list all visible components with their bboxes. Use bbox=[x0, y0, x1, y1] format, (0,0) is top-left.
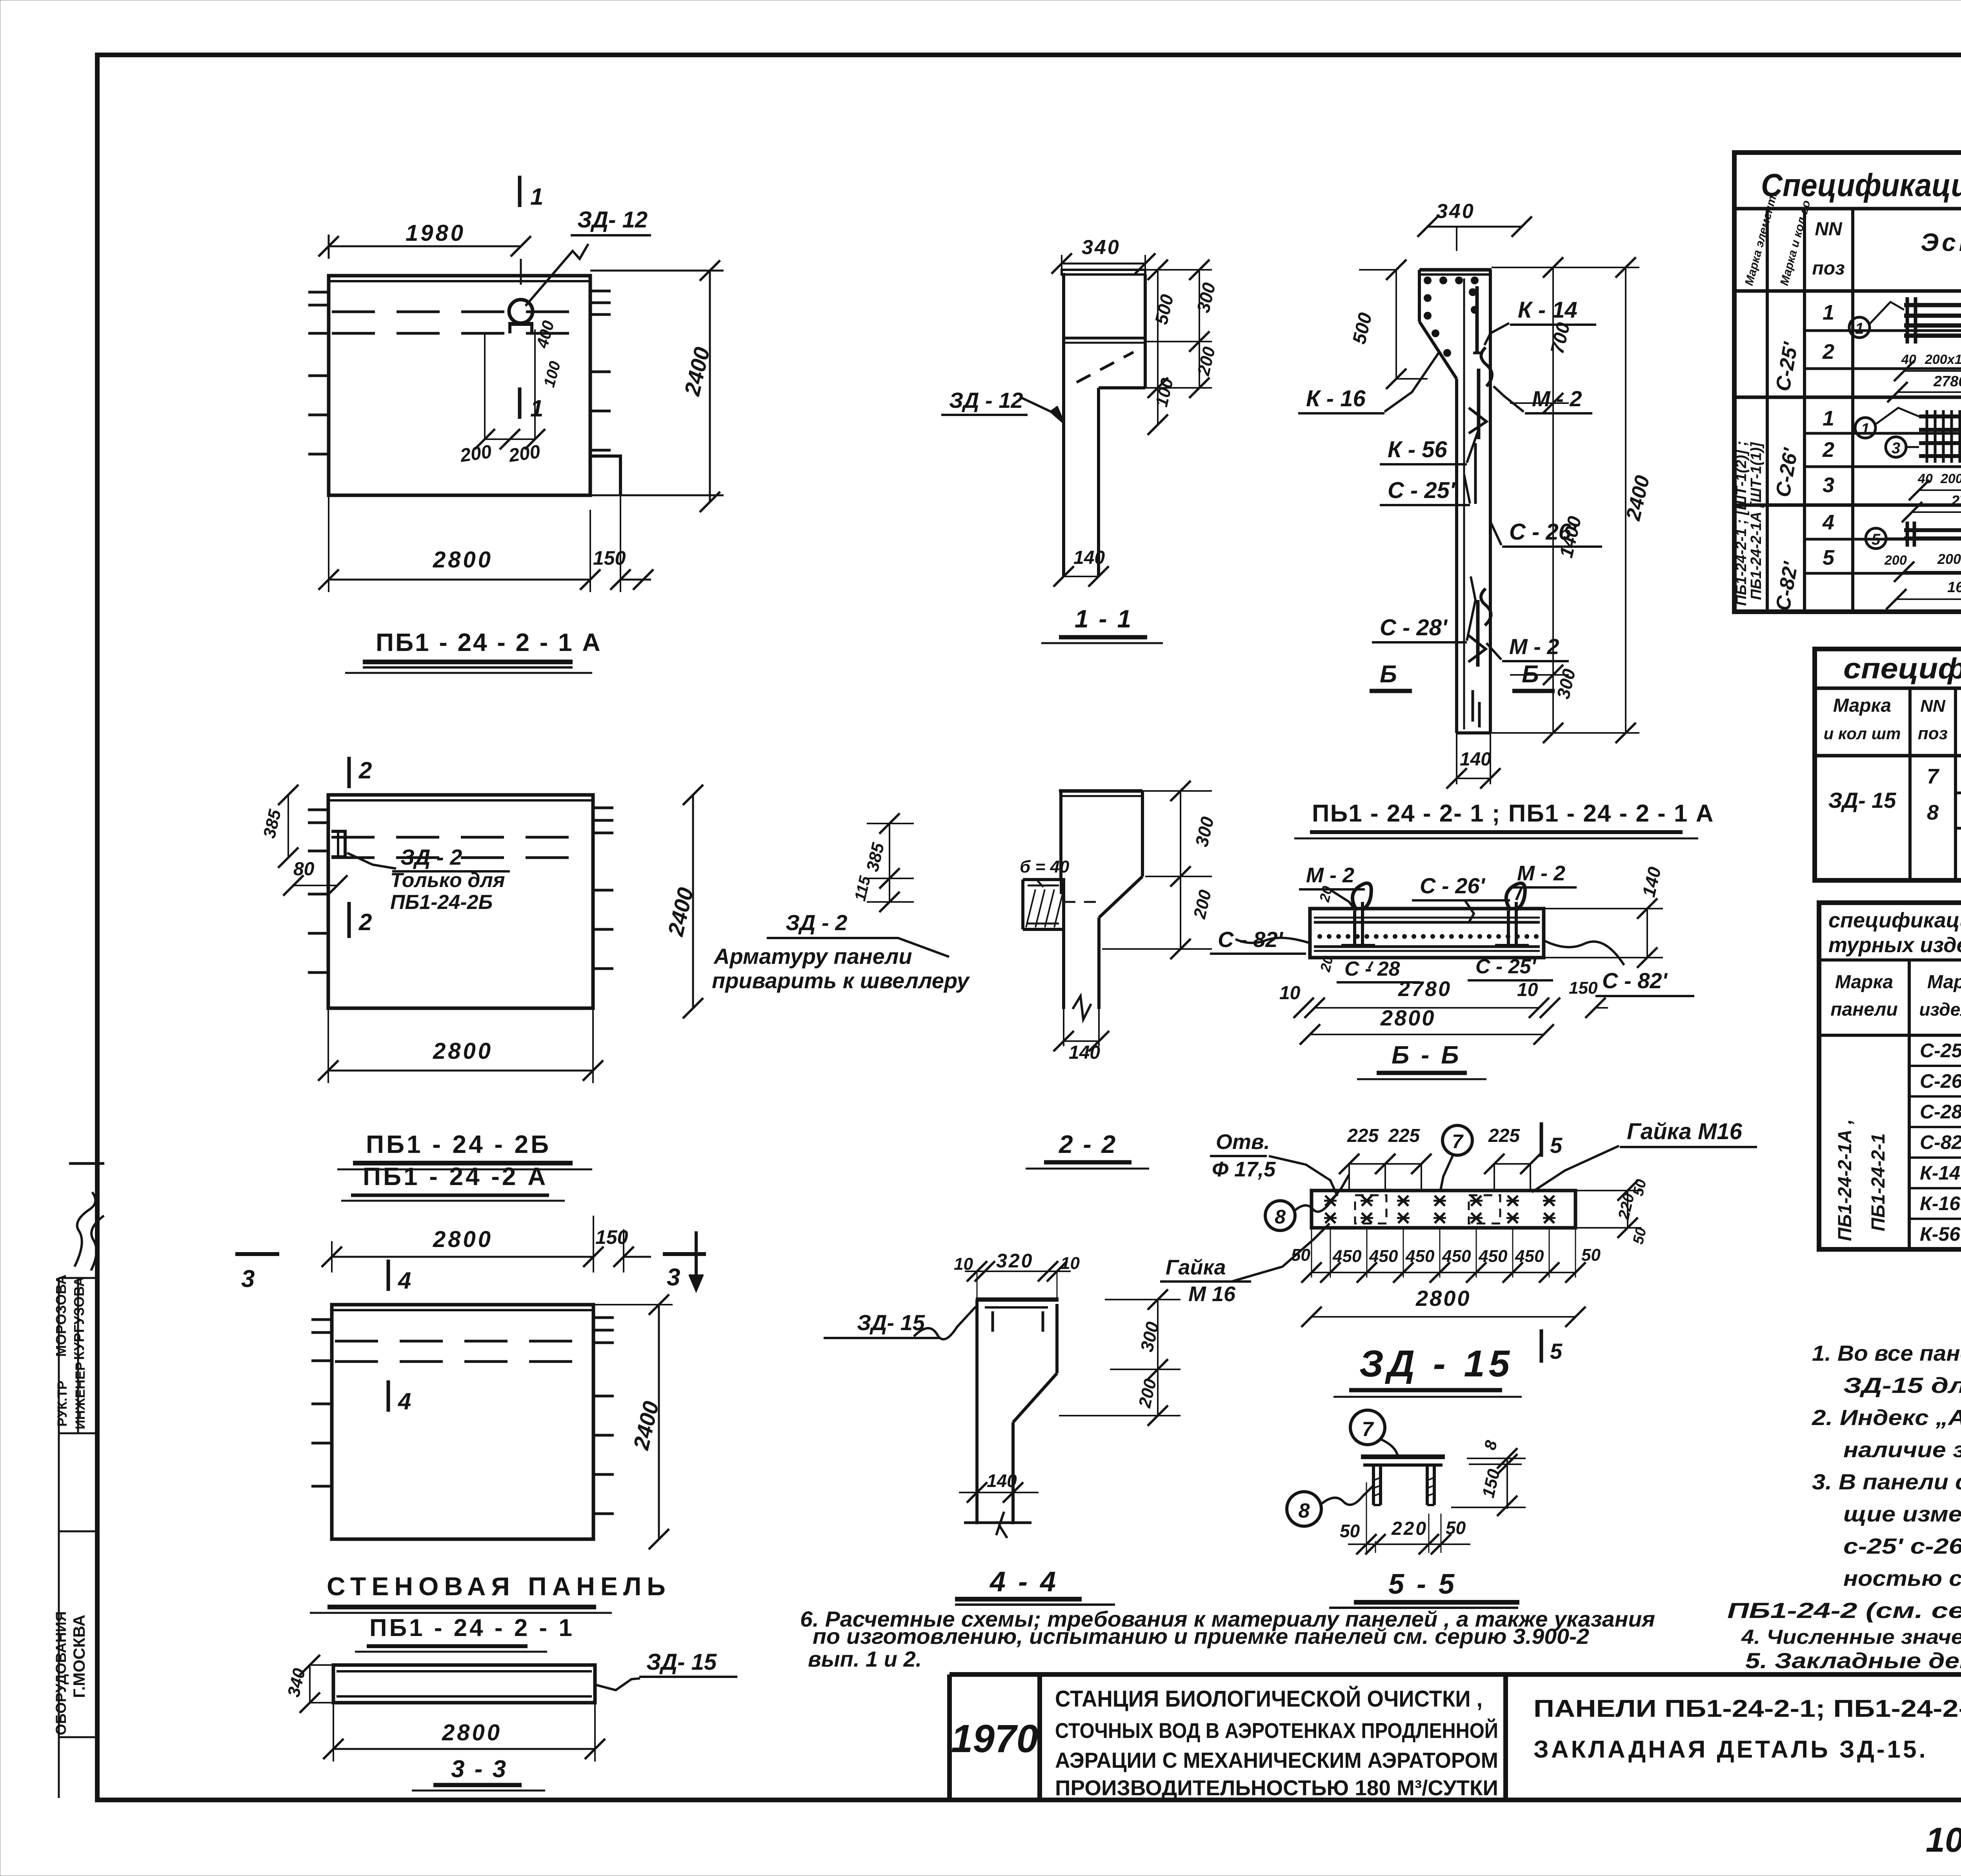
svg-text:8: 8 bbox=[1927, 801, 1939, 824]
svg-text:СТОЧНЫХ ВОД В АЭРОТЕНКАХ ПРОДЛ: СТОЧНЫХ ВОД В АЭРОТЕНКАХ ПРОДЛЕННОЙ bbox=[1055, 1718, 1498, 1743]
svg-text:К-16: К-16 bbox=[1920, 1192, 1961, 1214]
svg-text:5. Закладные детали ЗД-2;: 5. Закладные детали ЗД-2; ЗД-12 на листе… bbox=[1745, 1648, 1961, 1673]
svg-text:3. В панели с индексом 1 ( ПБ1: 3. В панели с индексом 1 ( ПБ1-24-2-1, П… bbox=[1812, 1469, 1961, 1494]
svg-text:спецификация стали на 1 штуку: спецификация стали на 1 штуку каждой мар… bbox=[1843, 652, 1961, 685]
svg-text:340: 340 bbox=[1436, 200, 1475, 223]
svg-text:К - 14: К - 14 bbox=[1518, 297, 1577, 323]
svg-text:1970: 1970 bbox=[951, 1717, 1038, 1761]
svg-text:2780: 2780 bbox=[1933, 373, 1961, 390]
svg-text:ЗД- 15: ЗД- 15 bbox=[857, 1310, 925, 1335]
svg-text:ЗД- 15: ЗД- 15 bbox=[1828, 788, 1897, 813]
svg-text:приварить к швеллеру: приварить к швеллеру bbox=[712, 968, 970, 993]
svg-text:ЗД - 15: ЗД - 15 bbox=[1359, 1343, 1513, 1385]
svg-text:7: 7 bbox=[1362, 1418, 1374, 1441]
svg-text:К - 16: К - 16 bbox=[1306, 386, 1366, 411]
svg-text:8: 8 bbox=[1275, 1206, 1286, 1228]
svg-text:ПБ1-24-2-1: ПБ1-24-2-1 bbox=[1868, 1133, 1889, 1231]
svg-text:2: 2 bbox=[358, 909, 372, 935]
svg-text:ЗД- 12: ЗД- 12 bbox=[577, 207, 648, 233]
svg-text:140: 140 bbox=[987, 1471, 1017, 1491]
svg-text:ПБ1-24-2Б: ПБ1-24-2Б bbox=[390, 891, 493, 914]
svg-text:1. Во все панели, кроме ПК1: 1. Во все панели, кроме ПК1-24-1 заложен… bbox=[1812, 1341, 1961, 1365]
svg-text:320: 320 bbox=[996, 1250, 1033, 1272]
svg-text:ЗД - 2: ЗД - 2 bbox=[786, 910, 847, 935]
svg-text:50: 50 bbox=[1581, 1245, 1601, 1265]
svg-text:ПБ1-24-2 (см. серию 3.900-2: ПБ1-24-2 (см. серию 3.900-2 в 2 лист 25)… bbox=[1727, 1598, 1961, 1623]
svg-text:вып. 1 и 2.: вып. 1 и 2. bbox=[808, 1647, 922, 1671]
svg-text:поз: поз bbox=[1918, 724, 1948, 743]
svg-text:ПБ1 - 24 - 2 - 1: ПБ1 - 24 - 2 - 1 bbox=[369, 1614, 575, 1641]
svg-text:ИНЖЕНЕР: ИНЖЕНЕР bbox=[73, 1362, 88, 1429]
svg-text:с-25' с-26', с-28' ; в осталь: с-25' с-26', с-28' ; в остальном армиров… bbox=[1843, 1534, 1961, 1558]
svg-text:200: 200 bbox=[1884, 553, 1907, 568]
svg-text:50: 50 bbox=[1340, 1521, 1360, 1541]
svg-text:щие изменения: вместо сеток: щие изменения: вместо сеток с-25; с-26; … bbox=[1843, 1502, 1961, 1526]
svg-text:К - 56: К - 56 bbox=[1388, 437, 1447, 462]
svg-text:2800: 2800 bbox=[433, 1038, 493, 1064]
svg-text:7: 7 bbox=[1927, 765, 1940, 788]
svg-text:С-26': С-26' bbox=[1920, 1070, 1961, 1092]
svg-text:ПБ1-24-2-1 ; [ШТ-1(2)] ;: ПБ1-24-2-1 ; [ШТ-1(2)] ; bbox=[1733, 441, 1750, 606]
svg-text:ЗД- 15: ЗД- 15 bbox=[646, 1649, 717, 1675]
svg-text:450: 450 bbox=[1332, 1247, 1362, 1266]
svg-text:10: 10 bbox=[1517, 980, 1538, 1000]
svg-text:С - 82': С - 82' bbox=[1218, 927, 1283, 952]
svg-text:М - 2: М - 2 bbox=[1306, 863, 1354, 887]
svg-text:140: 140 bbox=[1069, 1042, 1100, 1063]
svg-text:1: 1 bbox=[1823, 407, 1834, 430]
svg-text:50: 50 bbox=[1291, 1245, 1310, 1265]
svg-text:С - 28': С - 28' bbox=[1380, 615, 1448, 640]
svg-text:3: 3 bbox=[1823, 473, 1834, 497]
svg-text:С-25': С-25' bbox=[1920, 1040, 1961, 1062]
svg-text:2800: 2800 bbox=[433, 1227, 493, 1252]
svg-text:Марка: Марка bbox=[1835, 972, 1893, 993]
svg-text:СТЕНОВАЯ ПАНЕЛЬ: СТЕНОВАЯ ПАНЕЛЬ bbox=[327, 1572, 671, 1601]
svg-text:М - 2: М - 2 bbox=[1509, 634, 1559, 659]
svg-text:изделия: изделия bbox=[1919, 999, 1961, 1020]
svg-text:4: 4 bbox=[1822, 511, 1834, 534]
svg-text:1600: 1600 bbox=[1947, 579, 1961, 596]
svg-text:Марка: Марка bbox=[1833, 695, 1891, 716]
svg-text:2780: 2780 bbox=[1398, 977, 1452, 1001]
svg-text:ПЬ1 - 24 - 2- 1 ; ПБ1 - 24 -: ПЬ1 - 24 - 2- 1 ; ПБ1 - 24 - 2 - 1 А bbox=[1312, 800, 1714, 827]
svg-text:ПРОИЗВОДИТЕЛЬНОСТЬЮ 180 М³/СУТ: ПРОИЗВОДИТЕЛЬНОСТЬЮ 180 М³/СУТКИ bbox=[1055, 1776, 1498, 1800]
svg-text:С - 28: С - 28 bbox=[1344, 958, 1400, 980]
svg-text:450: 450 bbox=[1405, 1247, 1435, 1266]
svg-text:2: 2 bbox=[358, 757, 372, 783]
svg-text:1 - 1: 1 - 1 bbox=[1075, 605, 1133, 633]
svg-text:РУК.ТР: РУК.ТР bbox=[55, 1381, 70, 1427]
svg-text:1: 1 bbox=[1861, 420, 1870, 438]
svg-text:турных изделий на 1 панель: турных изделий на 1 панель bbox=[1828, 933, 1961, 957]
svg-text:150: 150 bbox=[593, 547, 626, 569]
svg-text:1: 1 bbox=[530, 395, 543, 422]
svg-text:С-28: С-28 bbox=[1920, 1101, 1961, 1123]
svg-text:140: 140 bbox=[1073, 547, 1105, 568]
svg-text:220: 220 bbox=[1391, 1518, 1428, 1539]
svg-text:Только для: Только для bbox=[390, 869, 505, 892]
svg-text:450: 450 bbox=[1369, 1247, 1398, 1266]
svg-text:10: 10 bbox=[1279, 983, 1301, 1003]
svg-text:4. Численные значения в круг: 4. Численные значения в круглых скабках … bbox=[1741, 1626, 1961, 1649]
svg-text:200х13: 200х13 bbox=[1940, 471, 1961, 486]
svg-text:200: 200 bbox=[458, 441, 493, 466]
svg-text:450: 450 bbox=[1515, 1247, 1544, 1266]
svg-text:4: 4 bbox=[398, 1388, 411, 1414]
svg-text:ПАНЕЛИ ПБ1-24-2-1; ПБ1-24-2-1А: ПАНЕЛИ ПБ1-24-2-1; ПБ1-24-2-1А; ПБ1-24-2… bbox=[1534, 1695, 1961, 1722]
svg-text:ЗАКЛАДНАЯ ДЕТАЛЬ ЗД-15.: ЗАКЛАДНАЯ ДЕТАЛЬ ЗД-15. bbox=[1534, 1736, 1928, 1763]
svg-text:1: 1 bbox=[1855, 320, 1864, 337]
svg-text:8: 8 bbox=[1299, 1500, 1310, 1522]
svg-text:1: 1 bbox=[1823, 301, 1834, 324]
svg-text:4 - 4: 4 - 4 bbox=[989, 1566, 1058, 1598]
svg-text:ЗД - 12: ЗД - 12 bbox=[949, 388, 1023, 413]
svg-text:5 - 5: 5 - 5 bbox=[1388, 1569, 1457, 1600]
svg-text:NN: NN bbox=[1815, 219, 1843, 240]
svg-text:ПБ1 - 24 - 2Б: ПБ1 - 24 - 2Б bbox=[366, 1130, 551, 1158]
svg-text:150: 150 bbox=[595, 1226, 628, 1248]
svg-text:450: 450 bbox=[1478, 1247, 1508, 1266]
svg-text:поз: поз bbox=[1812, 258, 1845, 279]
svg-text:Спецификация арматуры на 1: Спецификация арматуры на 1 элемент bbox=[1761, 167, 1961, 203]
svg-text:К-56: К-56 bbox=[1920, 1223, 1961, 1245]
svg-text:225: 225 bbox=[1488, 1125, 1520, 1146]
svg-text:СТАНЦИЯ БИОЛОГИЧЕСКОЙ ОЧИСТКИ: СТАНЦИЯ БИОЛОГИЧЕСКОЙ ОЧИСТКИ , bbox=[1055, 1686, 1483, 1712]
svg-text:Отв.: Отв. bbox=[1216, 1130, 1270, 1154]
svg-text:ПБ1 - 24 - 2 - 1 А: ПБ1 - 24 - 2 - 1 А bbox=[376, 628, 602, 656]
svg-text:2: 2 bbox=[1822, 340, 1834, 364]
svg-text:40: 40 bbox=[1901, 352, 1916, 367]
svg-text:140: 140 bbox=[1460, 749, 1491, 770]
svg-text:1: 1 bbox=[530, 184, 543, 210]
svg-text:по изготовлению, испытанию и: по изготовлению, испытанию и приемке пан… bbox=[813, 1624, 1589, 1649]
svg-text:7: 7 bbox=[1452, 1131, 1464, 1153]
svg-text:Г.МОСКВА: Г.МОСКВА bbox=[70, 1615, 88, 1698]
svg-text:2. Индекс „А“ „Б“ и -1“ в наим: 2. Индекс „А“ „Б“ и -1“ в наименовании м… bbox=[1812, 1405, 1961, 1430]
svg-text:АЭРАЦИИ С МЕХАНИЧЕСКИМ АЭРАТОР: АЭРАЦИИ С МЕХАНИЧЕСКИМ АЭРАТОРОМ bbox=[1055, 1748, 1498, 1772]
svg-text:2780: 2780 bbox=[1951, 493, 1961, 509]
svg-text:ПБ1-24-2-1А [ШТ-1(1)]: ПБ1-24-2-1А [ШТ-1(1)] bbox=[1748, 442, 1765, 600]
svg-text:2800: 2800 bbox=[442, 1720, 502, 1745]
svg-text:10545-02: 10545-02 bbox=[1926, 1820, 1961, 1859]
svg-text:5: 5 bbox=[1550, 1133, 1563, 1158]
svg-text:5: 5 bbox=[1823, 546, 1835, 569]
svg-text:М - 2: М - 2 bbox=[1517, 862, 1565, 885]
svg-text:225: 225 bbox=[1347, 1125, 1379, 1146]
svg-text:К-14: К-14 bbox=[1920, 1162, 1960, 1184]
svg-text:С-82': С-82' bbox=[1920, 1131, 1961, 1153]
svg-text:2800: 2800 bbox=[433, 547, 493, 573]
svg-text:спецификация марок арма-: спецификация марок арма- bbox=[1828, 909, 1961, 932]
svg-text:1980: 1980 bbox=[406, 220, 466, 246]
svg-text:Гайка М16: Гайка М16 bbox=[1627, 1119, 1743, 1144]
svg-text:3: 3 bbox=[241, 1265, 255, 1292]
svg-text:МОРОЗОВА: МОРОЗОВА bbox=[53, 1274, 69, 1357]
svg-text:Гайка: Гайка bbox=[1166, 1256, 1226, 1279]
svg-text:ностью соответствует армир: ностью соответствует армированию панели bbox=[1843, 1566, 1961, 1591]
svg-text:5: 5 bbox=[1550, 1339, 1563, 1363]
svg-text:3: 3 bbox=[1892, 440, 1900, 457]
svg-text:225: 225 bbox=[1388, 1125, 1420, 1146]
svg-text:М 16: М 16 bbox=[1188, 1282, 1236, 1306]
svg-text:2800: 2800 bbox=[1380, 1005, 1436, 1030]
svg-text:2800: 2800 bbox=[1415, 1286, 1471, 1311]
svg-text:ПБ1-24-2-1А ,: ПБ1-24-2-1А , bbox=[1835, 1119, 1855, 1241]
svg-text:2 - 2: 2 - 2 bbox=[1059, 1130, 1117, 1158]
svg-text:450: 450 bbox=[1442, 1247, 1471, 1266]
svg-text:С - 25': С - 25' bbox=[1388, 478, 1456, 503]
svg-text:КУРГУЗОВА: КУРГУЗОВА bbox=[71, 1277, 87, 1360]
svg-text:3 - 3: 3 - 3 bbox=[451, 1756, 508, 1783]
svg-text:Ф 17,5: Ф 17,5 bbox=[1212, 1158, 1276, 1181]
svg-text:200: 200 bbox=[507, 441, 542, 466]
svg-text:150: 150 bbox=[1569, 978, 1598, 998]
svg-text:200х13=2600: 200х13=2600 bbox=[1925, 352, 1961, 367]
svg-text:С - 26': С - 26' bbox=[1420, 873, 1485, 898]
svg-text:и кол шт: и кол шт bbox=[1824, 724, 1901, 743]
svg-text:С - 25': С - 25' bbox=[1475, 955, 1537, 978]
svg-text:ПБ1 - 24 -2 А: ПБ1 - 24 -2 А bbox=[363, 1162, 548, 1191]
svg-text:Марка: Марка bbox=[1927, 972, 1961, 993]
svg-text:4: 4 bbox=[398, 1267, 411, 1294]
svg-text:Эскиз: Эскиз bbox=[1921, 228, 1961, 256]
svg-text:панели: панели bbox=[1830, 999, 1897, 1020]
svg-text:ЗД-15 для крепления плит: ЗД-15 для крепления плит ПНС-17 -1. bbox=[1843, 1373, 1961, 1398]
svg-text:2: 2 bbox=[1822, 438, 1834, 462]
svg-text:ЗД - 2: ЗД - 2 bbox=[400, 845, 462, 869]
svg-text:80: 80 bbox=[293, 859, 315, 880]
svg-text:Б: Б bbox=[1380, 661, 1397, 688]
svg-text:NN: NN bbox=[1920, 696, 1946, 716]
svg-text:340: 340 bbox=[1082, 236, 1121, 259]
svg-text:ОБОРУДОВАНИЯ: ОБОРУДОВАНИЯ bbox=[53, 1611, 69, 1735]
svg-text:200 х 6: 200 х 6 bbox=[1937, 551, 1961, 567]
svg-text:3: 3 bbox=[667, 1264, 680, 1291]
svg-text:Б - Б: Б - Б bbox=[1392, 1041, 1461, 1069]
svg-text:наличие закладных де талей.: наличие закладных де талей. bbox=[1843, 1437, 1961, 1462]
svg-text:б = 40: б = 40 bbox=[1020, 857, 1070, 876]
svg-text:5: 5 bbox=[1872, 531, 1881, 548]
svg-text:Арматуру панели: Арматуру панели bbox=[713, 944, 912, 969]
svg-text:С - 82': С - 82' bbox=[1602, 968, 1668, 993]
